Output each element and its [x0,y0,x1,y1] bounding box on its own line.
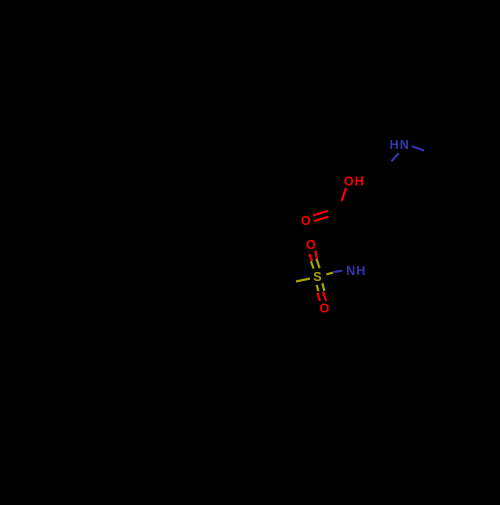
bond N-C2 (blue half) [391,153,398,161]
svg-text:H: H [355,175,364,189]
svg-text:H: H [390,138,399,152]
S=O top double bond line 1 [309,254,312,261]
hydroxyl OH label [344,175,364,189]
svg-text:O: O [344,175,354,189]
S=O bottom double bond line 1 [317,285,319,291]
svg-text:N: N [400,138,409,152]
svg-text:S: S [313,270,321,284]
C=O double bond (red halves) [313,211,328,216]
bond O(H)-C (red half) [342,188,347,201]
amine HN label (top) [390,138,409,152]
sulfonamide NH label [346,264,365,278]
S=O top double bond line 2 [315,251,317,262]
svg-text:O: O [306,238,316,252]
bond S-N: olive half then blue half [326,273,333,275]
svg-text:O: O [320,302,330,316]
svg-text:N: N [346,264,355,278]
svg-text:H: H [356,264,365,278]
svg-text:O: O [301,214,311,228]
bond S-CH3 (olive half) [296,279,310,282]
invisible carbon skeleton (black on black) [282,151,440,286]
bond N-CH3 (blue half) [412,146,424,150]
S=O bottom double bond line 2 [322,283,324,291]
